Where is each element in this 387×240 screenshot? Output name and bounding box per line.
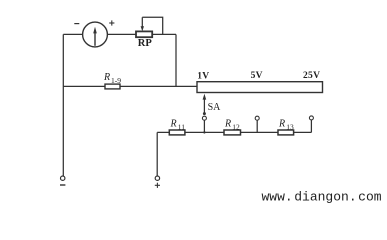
wire left vertical <box>62 34 64 176</box>
svg-text:www.diangon.com: www.diangon.com <box>262 190 382 205</box>
resistor R12 box <box>224 130 241 135</box>
terminal stub at bus end <box>309 116 313 132</box>
RP wiper top wire <box>142 17 162 34</box>
minus output terminal <box>61 176 65 180</box>
switch SA arrow <box>203 94 207 115</box>
svg-text:11: 11 <box>178 122 185 131</box>
junction dot SA-bus <box>203 131 205 133</box>
resistor R13 box <box>278 130 294 135</box>
wire bus left down <box>156 132 158 176</box>
wire main horizontal <box>63 85 197 87</box>
plus sign under terminal <box>155 183 160 188</box>
plus label of G1 <box>109 20 114 25</box>
voltage divider resistor box <box>197 82 323 93</box>
svg-text:R: R <box>224 119 231 130</box>
resistor R1-9 box <box>105 84 120 89</box>
terminal stub after R12 <box>255 116 259 132</box>
svg-text:1-9: 1-9 <box>111 76 121 85</box>
plus output terminal <box>155 176 159 180</box>
svg-text:R: R <box>170 119 177 130</box>
RP wiper arrow <box>141 17 144 31</box>
resistor R11 box <box>169 130 185 135</box>
svg-text:R: R <box>103 72 110 83</box>
wire right vertical down <box>175 34 177 86</box>
minus label of G1 <box>74 23 79 25</box>
svg-text:R: R <box>278 119 285 130</box>
svg-text:1V: 1V <box>197 72 209 82</box>
svg-text:SA: SA <box>208 102 222 113</box>
bottom bus wire <box>157 131 311 133</box>
arrow inside G1 <box>93 27 97 46</box>
svg-text:13: 13 <box>286 122 294 131</box>
current source G1 circle <box>83 22 108 47</box>
terminal circle under SA <box>202 116 206 120</box>
wire SA terminal to bus <box>203 120 205 132</box>
svg-text:5V: 5V <box>251 71 263 81</box>
wire circle left <box>63 33 83 35</box>
wire RP right <box>152 33 176 35</box>
svg-text:25V: 25V <box>303 71 320 81</box>
minus sign under terminal <box>60 184 65 186</box>
svg-text:RP: RP <box>138 38 153 49</box>
svg-text:12: 12 <box>232 122 240 131</box>
potentiometer RP box <box>136 31 152 37</box>
wire circle right to RP <box>107 33 136 35</box>
